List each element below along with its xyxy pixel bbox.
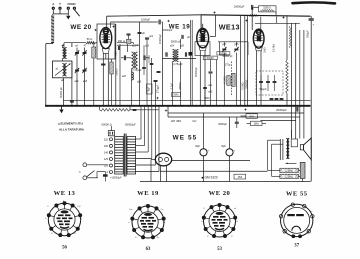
svg-text:µ21: µ21 [149, 35, 154, 38]
svg-text:500µF: 500µF [306, 30, 310, 38]
svg-text:50000µF: 50000µF [195, 67, 198, 77]
svg-text:63: 63 [146, 247, 151, 252]
svg-text:a26: a26 [122, 75, 127, 78]
svg-text:WE 55: WE 55 [286, 191, 308, 198]
svg-text:154: 154 [237, 175, 242, 179]
svg-text:(175µµF: (175µµF [173, 63, 183, 66]
svg-text:0,25MΩ: 0,25MΩ [284, 169, 293, 172]
svg-text:160: 160 [104, 145, 109, 148]
svg-text:50 Ω: 50 Ω [87, 37, 93, 41]
svg-text:0,5 MΩ: 0,5 MΩ [272, 44, 275, 52]
svg-text:220: 220 [104, 138, 109, 141]
svg-text:a18: a18 [83, 80, 88, 83]
svg-text:a24: a24 [170, 44, 175, 47]
svg-text:µF: µF [142, 32, 145, 35]
svg-text:50µµF: 50µµF [259, 88, 267, 91]
svg-text:0,1MΩ: 0,1MΩ [223, 76, 226, 84]
svg-text:▲ELEMENTI UTLI: ▲ELEMENTI UTLI [58, 122, 84, 126]
svg-text:≈10000µF: ≈10000µF [110, 175, 122, 179]
svg-text:µF: µF [187, 36, 190, 39]
svg-text:50000: 50000 [116, 68, 119, 76]
svg-text:20000µF: 20000µF [276, 108, 287, 112]
svg-text:10000µF: 10000µF [234, 5, 245, 9]
svg-text:0,5MΩ: 0,5MΩ [148, 55, 151, 63]
svg-text:53: 53 [217, 247, 222, 252]
svg-text:FONO: FONO [67, 2, 76, 6]
svg-text:WE 13: WE 13 [54, 190, 76, 197]
svg-text:5MΩ: 5MΩ [173, 94, 178, 97]
svg-text:170µµF: 170µµF [156, 84, 159, 93]
svg-text:Cr: Cr [236, 220, 239, 223]
svg-text:0,5MΩ: 0,5MΩ [242, 82, 245, 90]
svg-text:56: 56 [62, 245, 67, 250]
svg-text:140: 140 [104, 152, 109, 155]
svg-text:HP 469: HP 469 [171, 119, 181, 123]
svg-text:8µF: 8µF [195, 144, 200, 148]
svg-text:WE13: WE13 [219, 23, 240, 32]
svg-text:175µ: 175µ [225, 63, 231, 66]
svg-text:50000µF: 50000µF [125, 123, 136, 127]
svg-text:125: 125 [104, 158, 109, 161]
svg-text:ALLA TARATURA: ALLA TARATURA [59, 127, 85, 131]
svg-text:50000: 50000 [220, 52, 227, 55]
svg-text:Fm: Fm [129, 209, 132, 211]
svg-text:←: ← [280, 211, 282, 213]
svg-text:WE 55: WE 55 [173, 135, 198, 142]
svg-text:T: T [59, 2, 61, 6]
svg-text:WE 19: WE 19 [137, 190, 159, 197]
svg-text:50000: 50000 [207, 57, 214, 60]
svg-text:4MΩ: 4MΩ [249, 115, 254, 118]
svg-text:50000Ω: 50000Ω [246, 79, 249, 88]
svg-text:a22: a22 [132, 44, 137, 47]
svg-text:0,25MΩ: 0,25MΩ [284, 175, 293, 178]
svg-text:A: A [52, 2, 54, 6]
svg-text:◆ GM 3320: ◆ GM 3320 [201, 175, 218, 179]
svg-text:50000 µF: 50000 µF [222, 55, 233, 58]
svg-text:100: 100 [115, 51, 118, 56]
svg-text:a41: a41 [208, 84, 213, 87]
svg-text:WE 20: WE 20 [209, 190, 231, 197]
svg-text:37: 37 [294, 243, 299, 248]
svg-text:2000µF: 2000µF [218, 122, 227, 126]
svg-text:1MΩ: 1MΩ [254, 123, 259, 126]
svg-text:4µF: 4µF [147, 86, 150, 91]
svg-text:WE 20: WE 20 [70, 24, 91, 31]
svg-text:a42: a42 [208, 90, 213, 93]
svg-text:50000 µF: 50000 µF [171, 40, 182, 43]
svg-text:30000: 30000 [179, 82, 182, 90]
svg-text:1MΩ: 1MΩ [264, 47, 267, 52]
svg-text:8µF: 8µF [221, 144, 226, 148]
svg-text:1000µF: 1000µF [141, 18, 150, 22]
svg-text:15000µF: 15000µF [159, 34, 162, 44]
svg-text:(175µµF: (175µµF [132, 69, 142, 72]
svg-text:50000 µF: 50000 µF [59, 87, 63, 98]
svg-text:50000 Ω: 50000 Ω [101, 123, 111, 127]
svg-text:~: ~ [78, 170, 81, 175]
svg-text:≈Hz: ≈Hz [192, 119, 197, 123]
svg-text:0,1µF: 0,1µF [170, 82, 173, 89]
svg-text:WE 19: WE 19 [169, 24, 191, 31]
